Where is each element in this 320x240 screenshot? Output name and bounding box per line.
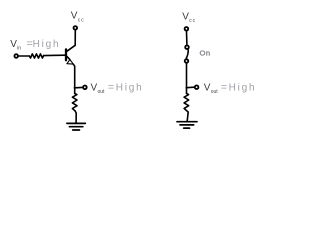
junction node Vout (right)	[186, 87, 188, 89]
wire junction to resistor R2	[74, 88, 76, 94]
svg-text:cc: cc	[78, 17, 85, 23]
wire junction to resistor R3	[186, 88, 188, 94]
label Vcc (right)	[182, 11, 196, 24]
wire Vin to resistor	[19, 55, 29, 57]
wire resistor to ground	[75, 111, 76, 123]
wire junction to Vout terminal	[187, 86, 195, 89]
resistor R2 (left pulldown)	[72, 93, 77, 110]
switch S1 top contact	[185, 45, 189, 49]
svg-text:=: =	[108, 82, 114, 94]
svg-text:On: On	[200, 48, 211, 57]
label Vcc (left)	[71, 11, 85, 24]
transistor Q1 base bar	[65, 49, 67, 60]
switch S1 blade (closed)	[186, 50, 188, 58]
node Vcc (right) terminal	[185, 27, 189, 31]
wire resistor to ground	[186, 110, 188, 121]
wire emitter down	[73, 64, 74, 88]
svg-text:High: High	[33, 39, 61, 50]
resistor R3 (right pulldown)	[184, 93, 189, 110]
svg-text:in: in	[17, 45, 21, 51]
svg-text:cc: cc	[189, 18, 196, 24]
node Vout (left) terminal	[83, 86, 87, 90]
svg-text:=: =	[221, 82, 227, 94]
label Vout = High (right)	[204, 82, 257, 96]
svg-text:High: High	[229, 83, 257, 94]
ground (left)	[67, 123, 85, 130]
node Vin terminal	[14, 54, 18, 58]
wire resistor to base	[44, 54, 65, 56]
transistor Q1 emitter lead	[67, 57, 70, 60]
wire collector to Vcc	[74, 31, 76, 46]
node Vcc (left) terminal	[74, 26, 78, 30]
label Vout = High (left)	[91, 82, 144, 96]
svg-text:High: High	[116, 83, 144, 94]
resistor R1 (base resistor)	[29, 54, 43, 58]
label Vin = High	[10, 38, 60, 51]
transistor Q1 emitter arrow	[67, 60, 73, 65]
switch S1 bottom contact	[185, 59, 189, 63]
wire Vcc to switch	[186, 32, 188, 45]
svg-text:out: out	[98, 89, 106, 95]
wire junction to Vout terminal	[75, 86, 83, 88]
node Vout (right) terminal	[195, 85, 199, 89]
ground (right)	[177, 122, 197, 128]
svg-text:out: out	[211, 89, 219, 95]
wire switch to junction	[186, 63, 188, 88]
transistor Q1 collector lead	[67, 45, 75, 51]
junction node Vout (left)	[74, 87, 76, 89]
